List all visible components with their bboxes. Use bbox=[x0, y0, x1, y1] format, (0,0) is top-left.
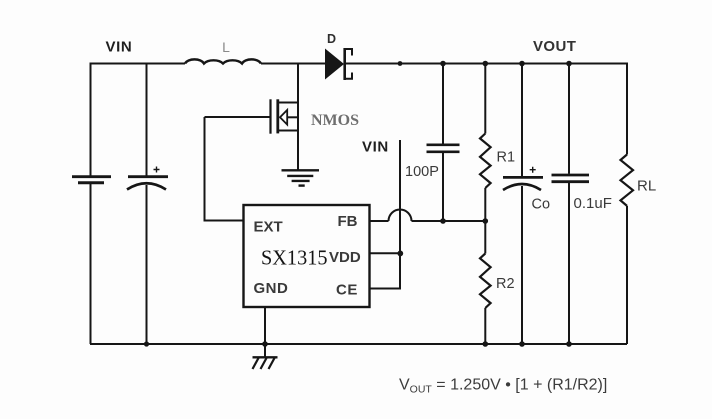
junction: GND lead on bottom rail bbox=[262, 341, 268, 347]
label SX1315 bbox=[261, 246, 328, 270]
wire: input cap bottom lead bbox=[146, 185, 148, 344]
wire: RL bottom lead bbox=[626, 206, 628, 344]
wire: left input vertical (battery top lead) bbox=[90, 63, 92, 176]
label NMOS bbox=[311, 112, 359, 129]
wire: 0.1uF top lead bbox=[568, 63, 570, 174]
label L bbox=[222, 39, 230, 55]
svg-text:R1: R1 bbox=[497, 150, 516, 166]
wire: GND pin to bottom rail and stub bbox=[264, 307, 266, 357]
wire: CE pin to VIN line bbox=[370, 288, 402, 290]
pin label EXT bbox=[254, 219, 283, 236]
op-amp U1 SX1315 box bbox=[244, 205, 370, 307]
svg-text:Co: Co bbox=[532, 197, 551, 213]
svg-text:D: D bbox=[327, 32, 336, 46]
junction: 100P bottom on FB wire bbox=[440, 218, 446, 224]
wire: RL right vertical top lead bbox=[626, 63, 628, 155]
junction: 0.1uF on VOUT rail bbox=[566, 61, 572, 67]
junction: FB wire to divider bbox=[483, 218, 489, 224]
label 0.1uF bbox=[574, 195, 612, 212]
wire: top rail from VIN corner to inductor bbox=[90, 63, 185, 65]
inductor L bbox=[185, 59, 261, 63]
wire: hop to R1/R2 junction bbox=[412, 220, 486, 222]
junction: 0.1uF on bottom rail bbox=[566, 341, 572, 347]
capacitor Co (output electrolytic) bbox=[503, 167, 543, 190]
junction: R2 on bottom rail bbox=[483, 341, 489, 347]
svg-text:R2: R2 bbox=[496, 276, 515, 292]
svg-text:VOUT: VOUT bbox=[533, 38, 576, 55]
wire: input cap top lead bbox=[146, 63, 148, 177]
junction: Co on VOUT rail bbox=[519, 61, 525, 67]
svg-text:VOUT = 1.250V • [1 + (R1/R2)]: VOUT = 1.250V • [1 + (R1/R2)] bbox=[399, 377, 607, 396]
label Co bbox=[532, 197, 551, 213]
wire: Co bottom lead bbox=[521, 186, 523, 344]
wire: 100P top lead bbox=[442, 63, 444, 145]
svg-text:CE: CE bbox=[336, 282, 358, 299]
label R2 bbox=[496, 276, 515, 292]
wire: NMOS source to ground bbox=[297, 131, 299, 171]
junction: Co on bottom rail bbox=[519, 341, 525, 347]
resistor RL bbox=[621, 155, 634, 206]
wire: 0.1uF bottom lead bbox=[568, 183, 570, 344]
svg-text:EXT: EXT bbox=[254, 219, 283, 236]
wire: R2 bottom lead bbox=[484, 308, 486, 344]
svg-text:0.1uF: 0.1uF bbox=[574, 195, 612, 212]
wire: R1 top lead bbox=[484, 63, 486, 134]
wire: battery bottom lead to bottom rail bbox=[90, 184, 92, 344]
svg-text:GND: GND bbox=[254, 280, 289, 297]
svg-text:RL: RL bbox=[637, 178, 656, 195]
svg-text:VDD: VDD bbox=[329, 249, 361, 266]
label RL bbox=[637, 178, 656, 195]
formula VOUT = 1.250V . [1 + (R1/R2)] bbox=[399, 377, 607, 396]
junction: input cap to bottom rail bbox=[144, 341, 149, 346]
wire: inductor to diode anode bbox=[261, 63, 325, 65]
svg-text:100P: 100P bbox=[405, 164, 439, 180]
wire: NMOS drain riser to top rail bbox=[297, 64, 299, 103]
wire: bottom rail bbox=[90, 343, 627, 345]
battery (input source) bbox=[72, 177, 111, 183]
pin label FB bbox=[338, 213, 358, 230]
pin label VDD bbox=[329, 249, 361, 266]
wire: EXT pin to gate riser bbox=[204, 220, 245, 222]
wire: VIN vertical to VDD/CE bbox=[399, 140, 401, 289]
wire: R1 bottom lead bbox=[484, 188, 486, 221]
label R1 bbox=[497, 150, 516, 166]
wire: FB pin to hop bbox=[370, 220, 389, 222]
resistor R2 bbox=[480, 254, 491, 309]
label VIN (middle) bbox=[362, 139, 389, 156]
resistor R1 bbox=[480, 134, 491, 189]
ground (earth, under NMOS) bbox=[282, 170, 320, 185]
label 100P bbox=[405, 164, 439, 180]
pin label GND bbox=[254, 280, 289, 297]
svg-text:NMOS: NMOS bbox=[311, 112, 359, 129]
junction: VDD to VIN line bbox=[397, 251, 403, 257]
wire: Co top lead bbox=[521, 63, 523, 178]
svg-text:SX1315: SX1315 bbox=[261, 246, 328, 270]
svg-text:L: L bbox=[222, 39, 230, 55]
junction: R1 on VOUT rail bbox=[483, 61, 489, 67]
diode D (schottky) bbox=[325, 48, 352, 80]
label VIN (top-left) bbox=[106, 39, 133, 56]
wire: diode cathode to VOUT rail right corner bbox=[346, 63, 627, 65]
svg-text:VIN: VIN bbox=[106, 39, 133, 56]
svg-text:FB: FB bbox=[338, 213, 358, 230]
label D bbox=[327, 32, 336, 46]
svg-text:VIN: VIN bbox=[362, 139, 389, 156]
wire: gate lead from EXT riser bbox=[204, 117, 206, 221]
wire: FB hop over VIN line bbox=[389, 210, 412, 222]
capacitor C+ (input electrolytic) bbox=[127, 167, 168, 190]
ground (chassis, below bottom rail) bbox=[253, 357, 278, 369]
pin label CE bbox=[336, 282, 358, 299]
capacitor 0.1uF bbox=[552, 175, 590, 182]
capacitor 100P bbox=[427, 145, 460, 152]
wire: VDD pin to VIN line bbox=[370, 252, 401, 254]
transistor Q1 NMOS bbox=[205, 99, 299, 133]
junction: 100P on VOUT rail bbox=[440, 61, 446, 67]
label VOUT bbox=[533, 38, 576, 55]
wire: 100P bottom lead bbox=[442, 153, 444, 222]
junction: stray node dot on VOUT rail bbox=[398, 61, 403, 66]
wire: R2 top lead bbox=[484, 221, 486, 254]
